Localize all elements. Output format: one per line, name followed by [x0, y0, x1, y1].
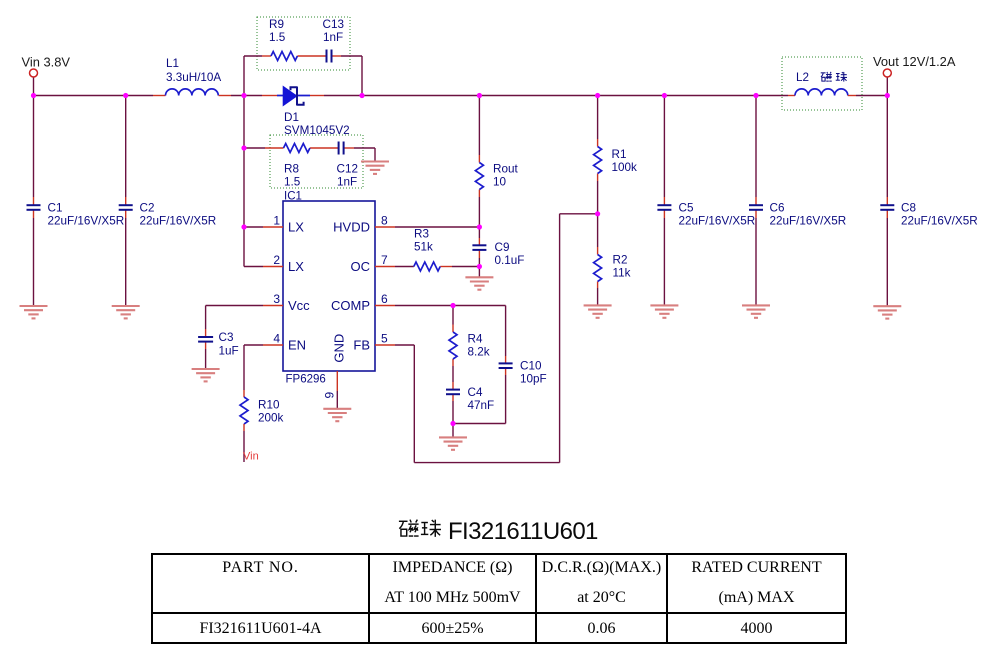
svg-text:C6: C6 — [770, 202, 785, 215]
label C10 value — [520, 373, 547, 386]
label C10 — [520, 360, 542, 373]
pin name LX (pin2) — [288, 259, 304, 274]
svg-text:D1: D1 — [284, 111, 299, 124]
svg-text:8: 8 — [381, 214, 388, 228]
pin name GND (pin9, rotated) — [332, 334, 347, 363]
wire: C5 branch — [663, 96, 665, 306]
ground below C2 — [112, 306, 140, 318]
label C2 value — [140, 215, 217, 228]
label Rout value — [493, 176, 507, 189]
label C4 value — [468, 399, 495, 412]
label R1 — [612, 148, 627, 161]
resistor Rout — [475, 163, 483, 190]
capacitor C8 — [880, 205, 894, 210]
pin number 6 — [381, 292, 388, 306]
svg-text:R10: R10 — [258, 399, 280, 412]
junction node C6 rail — [753, 93, 758, 98]
label C6 value — [770, 215, 847, 228]
svg-text:10pF: 10pF — [520, 373, 547, 386]
label C9 value — [495, 254, 525, 267]
junction node LX/snubber rail — [241, 93, 246, 98]
svg-text:11k: 11k — [613, 267, 631, 280]
label Rout — [493, 163, 518, 176]
wire: Vin port to rail — [33, 77, 35, 96]
pin number 9 (rotated) — [323, 392, 337, 399]
svg-text:Vout 12V/1.2A: Vout 12V/1.2A — [873, 54, 956, 69]
svg-text:C8: C8 — [901, 202, 916, 215]
svg-text:Vin 3.8V: Vin 3.8V — [22, 55, 71, 70]
junction node R1 rail — [595, 93, 600, 98]
svg-text:L2: L2 — [796, 71, 809, 84]
label L2 value (ferrite bead CJK text) — [821, 72, 847, 82]
svg-text:LX: LX — [288, 259, 304, 274]
wire: pin 3 stub + Vcc run to C3 — [206, 306, 283, 370]
specification table — [151, 553, 847, 644]
junction node C4/C10 — [450, 421, 455, 426]
svg-text:100k: 100k — [612, 161, 638, 174]
label R3 value — [414, 241, 433, 254]
label L1 value — [166, 71, 221, 84]
svg-text:4: 4 — [273, 332, 280, 346]
snubber box R9/C13 (dashed) — [257, 17, 350, 70]
wire: L2 to Vout node — [848, 95, 888, 97]
label L1 — [166, 57, 179, 70]
svg-text:1nF: 1nF — [337, 176, 357, 189]
ground below C9 — [465, 277, 493, 289]
label C1 — [48, 202, 63, 215]
svg-text:47nF: 47nF — [468, 399, 495, 412]
title: CJK 磁珠 + FI321611U601 — [398, 515, 658, 543]
svg-text:2: 2 — [273, 253, 280, 267]
wire: L1 to diode anode — [219, 95, 277, 97]
capacitor C4 — [446, 390, 460, 395]
junction node Vin rail — [31, 93, 36, 98]
ground below C3 — [192, 369, 220, 381]
pin name Vcc (pin3) — [288, 298, 310, 313]
svg-text:OC: OC — [351, 259, 371, 274]
resistor R4 — [449, 332, 457, 359]
svg-text:C1: C1 — [48, 202, 63, 215]
svg-text:1: 1 — [273, 214, 280, 228]
svg-text:Vcc: Vcc — [288, 298, 310, 313]
ground at IC GND pin 9 — [323, 409, 351, 421]
op-amp/IC U1 FP6296 body — [283, 201, 375, 371]
label R3 — [414, 228, 429, 241]
inductor L2 (ferrite bead) — [795, 89, 848, 96]
resistor R10 — [240, 397, 248, 424]
label R9 — [269, 18, 284, 31]
pin name FB (pin5) — [353, 338, 370, 353]
pin number 4 — [273, 332, 280, 346]
label R10 — [258, 399, 280, 412]
wire: C6 branch — [755, 96, 757, 306]
wire: C8 branch — [886, 96, 888, 307]
pin name COMP (pin6) — [331, 298, 370, 313]
svg-text:R1: R1 — [612, 148, 627, 161]
label C9 — [495, 241, 510, 254]
svg-text:5: 5 — [381, 332, 388, 346]
wire: snubber left riser — [243, 56, 245, 96]
svg-text:GND: GND — [332, 334, 347, 363]
label R1 value — [612, 161, 638, 174]
wire: R4/C4 branch — [452, 306, 454, 438]
label C13 — [323, 18, 344, 31]
svg-text:7: 7 — [381, 253, 388, 267]
junction node FB divider — [595, 211, 600, 216]
svg-text:FI321611U601: FI321611U601 — [448, 518, 598, 543]
junction node LX pin1 tap — [241, 224, 246, 229]
label R2 — [613, 254, 628, 267]
svg-text:IC1: IC1 — [284, 191, 302, 203]
pin number 1 — [273, 214, 280, 228]
label FP6296 part number — [286, 374, 326, 386]
svg-text:C13: C13 — [323, 18, 344, 31]
svg-text:1uF: 1uF — [219, 345, 239, 358]
wire: snubber top run — [244, 56, 362, 96]
svg-text:COMP: COMP — [331, 298, 370, 313]
svg-text:1nF: 1nF — [323, 31, 343, 44]
label C2 — [140, 202, 155, 215]
junction node COMP/R4 — [450, 303, 455, 308]
svg-text:8.2k: 8.2k — [468, 346, 490, 359]
svg-text:1.5: 1.5 — [284, 176, 301, 189]
wire: pin 2 stub — [244, 266, 283, 268]
svg-text:C9: C9 — [495, 241, 510, 254]
wire: Rout column — [478, 96, 480, 278]
svg-text:3.3uH/10A: 3.3uH/10A — [166, 71, 221, 84]
label D1 — [284, 111, 299, 124]
label R4 value — [468, 346, 490, 359]
ground for C12 — [361, 162, 389, 174]
svg-text:FP6296: FP6296 — [286, 374, 326, 386]
svg-text:22uF/16V/X5R: 22uF/16V/X5R — [140, 215, 217, 228]
label Vin 3.8V — [22, 55, 71, 70]
wire: R8/C12 run — [244, 148, 375, 162]
wire: Vout node up to port — [886, 77, 888, 96]
pin number 3 — [273, 292, 280, 306]
resistor R9 — [271, 52, 297, 61]
capacitor C13 — [327, 50, 332, 63]
label R10 value — [258, 412, 284, 425]
power port Vin (red) — [243, 451, 259, 463]
junction node Rout rail — [477, 93, 482, 98]
wire: pin 1 stub — [244, 226, 283, 228]
svg-text:0.1uF: 0.1uF — [495, 254, 525, 267]
wire: LX vertical bus x=244 — [243, 96, 245, 267]
svg-text:C5: C5 — [679, 202, 694, 215]
svg-text:R4: R4 — [468, 333, 483, 346]
svg-text:L1: L1 — [166, 57, 179, 70]
inductor L1 — [166, 89, 219, 96]
wire: pin 8 HVDD to node — [375, 226, 479, 228]
capacitor C3 — [198, 337, 213, 342]
svg-text:Vin: Vin — [243, 451, 259, 463]
svg-text:22uF/16V/X5R: 22uF/16V/X5R — [679, 215, 756, 228]
label C5 value — [679, 215, 756, 228]
wire: diode cathode to rail right section — [310, 95, 788, 97]
resistor R1 — [594, 147, 602, 174]
svg-text:R8: R8 — [284, 163, 299, 176]
wire: R1 branch — [597, 96, 599, 306]
ground below C5 — [650, 305, 678, 317]
svg-text:51k: 51k — [414, 241, 433, 254]
label C6 — [770, 202, 785, 215]
label C8 — [901, 202, 916, 215]
label R2 value — [613, 267, 631, 280]
ground below C1 — [20, 306, 48, 318]
resistor R3 — [414, 262, 440, 271]
svg-text:C3: C3 — [219, 331, 234, 344]
svg-text:C12: C12 — [337, 163, 358, 176]
ground below C6 — [742, 305, 770, 317]
label C3 value — [219, 345, 239, 358]
svg-text:SVM1045V2: SVM1045V2 — [284, 124, 350, 137]
capacitor C10 — [499, 363, 513, 368]
label C12 value — [337, 176, 357, 189]
svg-text:22uF/16V/X5R: 22uF/16V/X5R — [901, 215, 978, 228]
label IC1 designator — [284, 191, 302, 203]
svg-text:C2: C2 — [140, 202, 155, 215]
ferrite bead box L2 (dashed) — [782, 57, 862, 110]
junction node C5 rail — [662, 93, 667, 98]
wire: pin 6 COMP run — [375, 305, 506, 307]
snubber box R8/C12 (dashed) — [270, 135, 363, 188]
svg-text:EN: EN — [288, 338, 306, 353]
capacitor C6 — [749, 205, 763, 210]
pin number 8 — [381, 214, 388, 228]
label C1 value — [48, 215, 125, 228]
svg-text:R9: R9 — [269, 18, 284, 31]
label R9 value — [269, 31, 286, 44]
wire: pin 4 stub + EN run to R10 — [244, 345, 283, 397]
svg-text:R3: R3 — [414, 228, 429, 241]
svg-text:3: 3 — [273, 292, 280, 306]
wire: rail red stub into L2 — [788, 95, 795, 97]
svg-text:C4: C4 — [468, 386, 483, 399]
junction node C2 rail — [123, 93, 128, 98]
svg-text:FB: FB — [353, 338, 370, 353]
capacitor C5 — [657, 205, 671, 210]
ground below C8 — [873, 306, 901, 318]
svg-text:22uF/16V/X5R: 22uF/16V/X5R — [770, 215, 847, 228]
svg-text:200k: 200k — [258, 412, 284, 425]
wire: R10 to Vin power port — [243, 424, 245, 462]
svg-text:22uF/16V/X5R: 22uF/16V/X5R — [48, 215, 125, 228]
wire: pin 9 stub to ground — [336, 371, 338, 409]
resistor R8 — [284, 144, 310, 153]
label L2 — [796, 71, 809, 84]
capacitor C9 — [472, 245, 486, 250]
wire: pin 5 FB loop to divider — [375, 214, 598, 463]
pin number 2 — [273, 253, 280, 267]
label R8 — [284, 163, 299, 176]
junction node Vout rail — [885, 93, 890, 98]
label R8 value — [284, 176, 301, 189]
port Vin 3.8V terminal circle — [30, 69, 38, 77]
label D1 part — [284, 124, 350, 137]
junction node diode cathode rail — [359, 93, 364, 98]
label C13 value — [323, 31, 343, 44]
wire: pin 7 OC to R3 — [375, 266, 479, 268]
capacitor C1 — [27, 205, 41, 210]
port Vout terminal circle — [883, 69, 891, 77]
wire: main rail Vin to L1 — [34, 95, 166, 97]
diode D1 SVM1045V2 — [277, 87, 310, 106]
svg-text:LX: LX — [288, 220, 304, 235]
pin name HVDD (pin8) — [333, 220, 370, 235]
pin name EN (pin4) — [288, 338, 306, 353]
junction node HVDD/Rout — [477, 224, 482, 229]
label C12 — [337, 163, 358, 176]
svg-text:HVDD: HVDD — [333, 220, 370, 235]
pin number 5 — [381, 332, 388, 346]
svg-text:9: 9 — [323, 392, 337, 399]
wire: C2 branch — [125, 96, 127, 307]
ground below C4 — [439, 437, 467, 449]
label Vout 12V/1.2A — [873, 54, 956, 69]
svg-text:Rout: Rout — [493, 163, 518, 176]
capacitor C12 — [339, 142, 344, 155]
junction node R8 tap — [241, 145, 246, 150]
label C3 — [219, 331, 234, 344]
pin number 7 — [381, 253, 388, 267]
label C5 — [679, 202, 694, 215]
pin name LX (pin1) — [288, 220, 304, 235]
capacitor C2 — [119, 205, 133, 210]
svg-text:10: 10 — [493, 176, 507, 189]
label R4 — [468, 333, 483, 346]
pin name OC (pin7) — [351, 259, 371, 274]
svg-text:R2: R2 — [613, 254, 628, 267]
label C4 — [468, 386, 483, 399]
wire: C10 branch — [453, 306, 506, 424]
svg-text:C10: C10 — [520, 360, 542, 373]
junction node OC/C9 — [477, 264, 482, 269]
svg-text:6: 6 — [381, 292, 388, 306]
resistor R2 — [594, 255, 602, 282]
ground below R2 — [584, 305, 612, 317]
wire: C1 branch — [33, 96, 35, 307]
svg-text:1.5: 1.5 — [269, 31, 286, 44]
label C8 value — [901, 215, 978, 228]
